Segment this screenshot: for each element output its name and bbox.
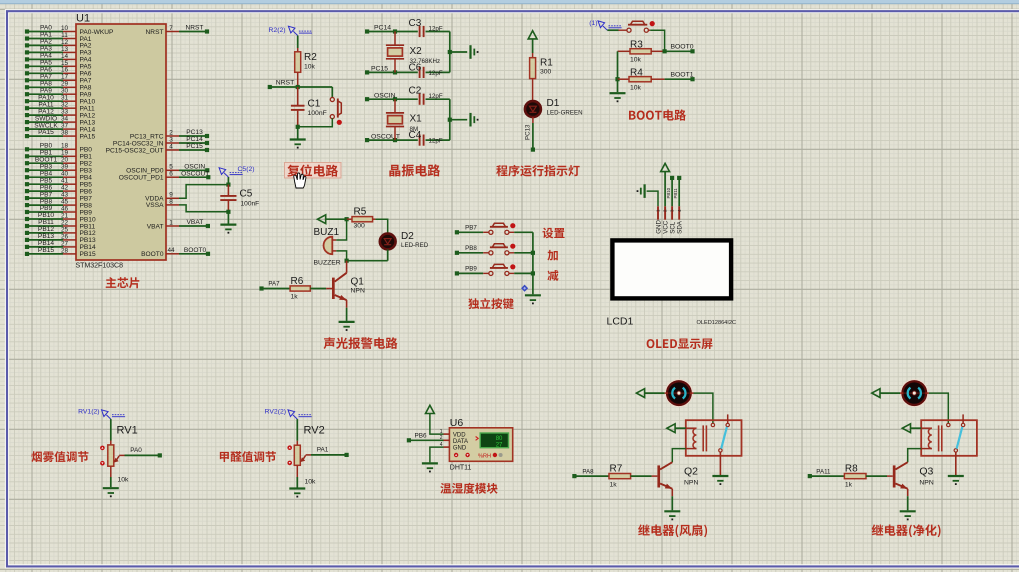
wire RV2 wiper to PA1 (311, 447, 349, 458)
capacitor C3 top (409, 18, 450, 37)
wire net BOOT1 pin 20 (25, 156, 92, 167)
wire net PA7 pin 17 (25, 74, 92, 85)
capacitor C1 (291, 87, 327, 129)
svg-text:1k: 1k (845, 482, 853, 489)
wire net PA15 pin 38 (25, 129, 96, 140)
wire terminal to boot button (607, 29, 618, 31)
svg-text:C3: C3 (409, 18, 422, 29)
svg-text:34: 34 (61, 116, 69, 123)
svg-text:1k: 1k (610, 482, 618, 489)
wire reset button to C1 bottom (298, 118, 333, 127)
svg-text:12: 12 (61, 39, 69, 46)
wire X2 right rail (448, 32, 468, 73)
svg-text:R6: R6 (291, 276, 304, 287)
svg-text:10k: 10k (304, 64, 316, 71)
ground under relay switch (712, 475, 728, 477)
wire SCL stub (666, 176, 674, 207)
svg-text:VBAT: VBAT (147, 223, 164, 230)
svg-text:100nF: 100nF (308, 110, 327, 117)
wire net PC15 (365, 66, 418, 75)
svg-text:OSCIN: OSCIN (374, 92, 396, 99)
svg-text:C5(2): C5(2) (238, 166, 255, 173)
wire SDA stub (673, 176, 681, 207)
wire D1 to PC13 node (525, 117, 536, 152)
wire Q3 emitter to ground (907, 489, 909, 496)
svg-text:NPN: NPN (351, 287, 365, 294)
svg-text:BOOT0: BOOT0 (670, 44, 693, 51)
svg-text:PB6: PB6 (80, 188, 93, 195)
chip pin 8 VSSA (146, 198, 179, 209)
transistor Q2 NPN (657, 462, 698, 489)
wire Q2 emitter to ground (671, 489, 673, 496)
svg-text:8: 8 (169, 198, 173, 205)
svg-text:PA7: PA7 (40, 74, 52, 81)
svg-text:PB12: PB12 (38, 226, 54, 233)
svg-text:PA7: PA7 (268, 281, 280, 288)
diode D2 LED-RED (380, 231, 429, 249)
wire to ground boot (617, 79, 619, 92)
svg-text:46: 46 (61, 205, 69, 212)
terminal flag RV2(2) (265, 409, 312, 420)
svg-text:PB13: PB13 (38, 233, 54, 240)
svg-text:D1: D1 (547, 98, 560, 109)
label 温湿度模块 (440, 483, 497, 494)
wire R4 to BOOT1 (665, 72, 695, 82)
svg-text:Q1: Q1 (351, 277, 365, 288)
wire VDDA to C5 net (179, 185, 228, 199)
svg-text:PA12: PA12 (80, 112, 96, 119)
crystal X2 (386, 32, 440, 73)
svg-text:PA10: PA10 (80, 99, 96, 106)
ground boot circuit (610, 92, 626, 94)
svg-text:DHT11: DHT11 (450, 465, 472, 472)
ground under Q1 (339, 321, 355, 323)
chip pin 7 NRST (146, 25, 210, 36)
svg-text:PA13: PA13 (80, 119, 96, 126)
wire coil to collector (672, 449, 686, 463)
svg-text:PA2: PA2 (40, 39, 52, 46)
wire net PA8 pin 29 (25, 81, 92, 92)
svg-text:33: 33 (61, 109, 69, 116)
wire net OSCOUT (365, 133, 418, 142)
svg-text:U1: U1 (76, 13, 90, 25)
svg-text:PB3: PB3 (80, 168, 93, 175)
power terminal motor (872, 389, 880, 398)
wire R1 to D1 (532, 79, 534, 102)
svg-text:PB9: PB9 (465, 266, 477, 273)
resistor R6 (290, 276, 310, 301)
transistor Q3 NPN (893, 462, 934, 489)
wire net PB12 pin 25 (25, 226, 96, 237)
wire R3 to BOOT0 (663, 44, 695, 54)
svg-text:PA12: PA12 (38, 108, 54, 115)
power terminal above R1 (528, 31, 537, 39)
ground left OLED (643, 184, 645, 198)
wire R2 to NRST node (297, 72, 299, 87)
svg-text:PB10: PB10 (666, 187, 671, 198)
wire C5 to ground (227, 212, 229, 224)
svg-text:R3: R3 (630, 40, 643, 51)
chip pin 44 BOOT0 (141, 247, 210, 258)
power terminal OLED VCC (661, 163, 670, 171)
wire key PB7 to trunk (509, 231, 533, 233)
svg-text:10k: 10k (630, 57, 642, 64)
svg-text:27: 27 (496, 442, 503, 448)
svg-text:PC13_RTC: PC13_RTC (130, 133, 164, 140)
resistor R2 (295, 52, 318, 73)
label 主芯片 (106, 277, 140, 288)
svg-text:3: 3 (169, 136, 173, 143)
wire keys trunk (532, 232, 534, 294)
wire net PB9 (455, 266, 489, 276)
svg-text:DATA: DATA (453, 439, 468, 445)
relay RL fan box (686, 420, 742, 456)
svg-text:PA5: PA5 (40, 60, 52, 67)
svg-text:30: 30 (61, 88, 69, 95)
svg-text:6: 6 (169, 171, 173, 178)
crystal X1 (386, 99, 422, 140)
svg-text:PB10: PB10 (80, 216, 96, 223)
svg-text:OLED12864I2C: OLED12864I2C (697, 320, 737, 326)
wire net PA9 pin 30 (25, 87, 92, 98)
svg-text:R1: R1 (540, 58, 553, 69)
svg-text:PA8: PA8 (582, 468, 594, 475)
svg-text:PA1: PA1 (317, 447, 329, 454)
svg-text:44: 44 (167, 247, 175, 254)
wire net PA3 pin 13 (25, 46, 92, 57)
svg-text:PA7: PA7 (80, 78, 92, 85)
svg-text:17: 17 (61, 74, 69, 81)
push button boot (627, 21, 655, 32)
wire power to R1 (532, 39, 534, 53)
svg-text:PA9: PA9 (80, 92, 92, 99)
svg-text:PA9: PA9 (40, 87, 52, 94)
wire GND pin to ground (430, 447, 444, 462)
wire terminal to R2 (297, 36, 299, 49)
svg-text:PB0: PB0 (40, 143, 53, 150)
svg-text:12pF: 12pF (429, 70, 443, 77)
svg-text:NPN: NPN (684, 480, 698, 487)
wire GND pin to ground (647, 191, 658, 206)
svg-text:LED-GREEN: LED-GREEN (547, 110, 583, 117)
relay RL purifier box (921, 420, 977, 456)
svg-text:16: 16 (61, 67, 69, 74)
wire net PB4 pin 40 (25, 170, 92, 181)
label OLED显示屏 (647, 338, 713, 349)
wire power to R5 node (325, 217, 349, 221)
chip pin 6 OSCOUT_PD1 (119, 170, 211, 181)
svg-text:VCC: VCC (663, 220, 670, 234)
chip pin 3 PC14-OSC32_IN (113, 136, 209, 147)
svg-text:28: 28 (61, 247, 69, 254)
svg-text:42: 42 (61, 185, 69, 192)
resistor R4 (615, 67, 664, 91)
wire net PB8 (455, 245, 489, 255)
relay switch contacts (711, 414, 729, 452)
svg-text:PB15: PB15 (38, 247, 54, 254)
wire motor to relay switch (925, 393, 948, 423)
wire PA7 to R6 (259, 281, 290, 291)
diode D1 LED-GREEN (525, 98, 583, 117)
ground right of X2 (469, 45, 471, 59)
svg-text:PC13: PC13 (186, 129, 203, 136)
wire power to coil (675, 427, 686, 429)
wire net PB13 pin 26 (25, 233, 96, 244)
wire buzzer bottom pin (332, 250, 336, 252)
terminal flag (1) (589, 20, 621, 30)
wire RV2 to ground (296, 465, 298, 477)
svg-text:10k: 10k (305, 479, 317, 486)
svg-text:PB14: PB14 (38, 240, 54, 247)
wire net PA10 pin 31 (25, 94, 96, 105)
svg-text:BOOT1: BOOT1 (670, 72, 693, 79)
svg-text:PA3: PA3 (40, 46, 52, 53)
svg-text:R2(2): R2(2) (269, 27, 286, 34)
wire relay common to ground (955, 452, 957, 475)
svg-text:PB6: PB6 (40, 184, 53, 191)
svg-text:RV1(2): RV1(2) (78, 409, 99, 416)
svg-text:PB2: PB2 (80, 161, 93, 168)
svg-text:C2: C2 (409, 86, 422, 97)
svg-text:13: 13 (61, 46, 69, 53)
svg-text:Q2: Q2 (684, 466, 698, 478)
svg-text:43: 43 (61, 192, 69, 199)
svg-text:31: 31 (61, 95, 69, 102)
svg-text:C5: C5 (240, 189, 253, 200)
wire power to motor (880, 392, 900, 394)
capacitor C5 (220, 177, 259, 214)
svg-text:7: 7 (169, 25, 173, 32)
svg-text:80: 80 (496, 436, 503, 442)
svg-text:VSSA: VSSA (146, 202, 164, 209)
svg-text:PA11: PA11 (816, 468, 831, 475)
svg-text:PB8: PB8 (465, 245, 477, 252)
svg-text:PB6: PB6 (414, 433, 427, 440)
wire net SWCLK pin 37 (25, 122, 96, 133)
LCD1 pin header (656, 206, 684, 234)
wire net PA0 pin 10 (25, 25, 114, 36)
svg-text:PB5: PB5 (40, 177, 53, 184)
transistor Q1 NPN (332, 261, 365, 300)
svg-text:R5: R5 (354, 207, 367, 218)
svg-text:R2: R2 (304, 52, 317, 63)
wire D2 to collector node (345, 249, 388, 262)
chip pin 1 VBAT (147, 219, 210, 230)
label 减 (547, 270, 558, 281)
svg-text:40: 40 (61, 171, 69, 178)
svg-text:R4: R4 (630, 67, 643, 78)
power terminal left arrow alarm (318, 215, 326, 224)
wire C1 to ground (297, 127, 299, 139)
wire net PA8 to R7 (572, 468, 609, 478)
wire net PA5 pin 15 (25, 60, 92, 71)
wire net PB6 pin 42 (25, 184, 92, 195)
ground under Q3 (900, 510, 916, 512)
svg-text:PA15: PA15 (80, 133, 96, 140)
wire NRST rail (268, 85, 333, 89)
svg-text:PC15: PC15 (371, 66, 388, 73)
ground under RV2 (289, 487, 305, 489)
svg-text:PB15: PB15 (80, 251, 96, 258)
svg-text:100nF: 100nF (241, 201, 260, 208)
svg-text:PB11: PB11 (673, 188, 678, 199)
svg-text:37: 37 (61, 123, 69, 130)
label 继电器(净化) (872, 524, 941, 537)
svg-text:PA5: PA5 (80, 64, 92, 71)
label 晶振电路 (389, 164, 440, 176)
terminal flag R2(2) (269, 26, 313, 35)
window top strip (0, 0, 1019, 4)
wire R7 to Q2 base (631, 475, 652, 477)
wire net PB11 pin 22 (25, 219, 96, 230)
svg-text:20: 20 (61, 157, 69, 164)
svg-text:PA6: PA6 (80, 71, 92, 78)
relay switch blade (957, 427, 963, 449)
svg-text:BUZZER: BUZZER (314, 260, 341, 267)
power terminal DHT11 (426, 405, 435, 413)
svg-text:PA15: PA15 (38, 129, 54, 136)
ground under keys (525, 294, 541, 296)
resistor R3 (618, 40, 665, 64)
push button key PB9 (489, 271, 493, 275)
wire net PB7 (455, 225, 489, 235)
svg-text:NPN: NPN (919, 480, 933, 487)
wire VCC pin (664, 172, 666, 207)
wire net PB0 pin 18 (25, 143, 92, 154)
svg-text:PB7: PB7 (465, 225, 477, 232)
svg-text:X1: X1 (410, 114, 423, 125)
svg-text:PA0-WKUP: PA0-WKUP (80, 29, 115, 36)
wire power to VDD (430, 414, 444, 435)
svg-text:1k: 1k (291, 294, 299, 301)
svg-text:PB13: PB13 (80, 237, 96, 244)
capacitor C6 bottom (409, 62, 450, 78)
svg-text:12pF: 12pF (429, 138, 443, 145)
relay switch contacts (947, 414, 965, 452)
svg-text:BUZ1: BUZ1 (314, 227, 340, 238)
svg-text:SCL: SCL (670, 221, 677, 234)
resistor R7 (609, 464, 631, 489)
svg-text:NRST: NRST (186, 25, 204, 32)
svg-text:GND: GND (453, 446, 467, 452)
op-amp U1 main MCU body STM32F103C8 (76, 24, 166, 260)
svg-text:PC14-OSC32_IN: PC14-OSC32_IN (113, 140, 164, 147)
svg-text:Q3: Q3 (919, 466, 933, 478)
wire power to coil (911, 427, 922, 429)
node marker blue diamond (521, 285, 528, 292)
potentiometer RV2 (287, 425, 324, 486)
ground under DHT11 (422, 462, 438, 464)
wire power to motor (645, 392, 665, 394)
svg-text:PA14: PA14 (80, 126, 96, 133)
wire motor to relay switch (690, 393, 713, 423)
svg-text:27: 27 (61, 240, 69, 247)
wire net PB5 pin 41 (25, 177, 92, 188)
label 设置 (543, 228, 565, 239)
svg-text:PA6: PA6 (40, 67, 52, 74)
resistor R1 (530, 58, 554, 79)
svg-text:PB3: PB3 (40, 163, 53, 170)
terminal flag C5(2) (219, 166, 254, 177)
wire NRST to reset button (331, 87, 333, 98)
svg-text:D2: D2 (401, 231, 414, 242)
ground under C5 (220, 225, 236, 234)
chip pin 4 PC15-OSC32_OUT (106, 143, 210, 154)
svg-text:SWDIO: SWDIO (35, 115, 57, 122)
svg-text:PA10: PA10 (38, 94, 54, 101)
wire net PA11 pin 32 (25, 101, 95, 112)
ground under C1 (290, 138, 306, 140)
wire terminal to RV1 (110, 419, 112, 440)
svg-text:PB4: PB4 (80, 175, 93, 182)
ground under RV1 (103, 487, 119, 489)
wire net SWDIO pin 34 (25, 115, 96, 126)
wire net PB9 pin 46 (25, 205, 92, 216)
wire net PB10 pin 21 (25, 212, 96, 223)
svg-text:26: 26 (61, 233, 69, 240)
svg-text:10k: 10k (630, 84, 642, 91)
svg-text:SDA: SDA (677, 220, 684, 234)
svg-text:10k: 10k (118, 477, 130, 484)
relay switch blade (721, 427, 727, 449)
wire key PB8 to trunk (509, 251, 535, 255)
svg-text:1: 1 (440, 429, 443, 435)
wire PB6 to DATA (407, 433, 444, 443)
svg-text:PC14: PC14 (374, 25, 391, 32)
wire net PA4 pin 14 (25, 53, 92, 64)
motor fan purifier (900, 379, 928, 407)
svg-text:PC14: PC14 (186, 136, 203, 143)
wire net PB1 pin 19 (25, 150, 92, 161)
label 声光报警电路 (324, 337, 398, 349)
svg-text:12pF: 12pF (429, 93, 443, 100)
svg-text:RV1: RV1 (117, 425, 138, 437)
wire coil to collector (908, 449, 922, 463)
svg-text:BOOT0: BOOT0 (141, 251, 164, 258)
svg-text:NRST: NRST (146, 29, 164, 36)
chip pin 2 PC13_RTC (130, 129, 209, 140)
svg-text:(1): (1) (589, 20, 597, 27)
wire net PA1 pin 11 (25, 32, 92, 43)
resistor R5 (347, 207, 376, 230)
svg-text:PA3: PA3 (80, 50, 92, 57)
label 烟雾值调节 (31, 451, 88, 462)
svg-text:OSCOUT: OSCOUT (181, 170, 209, 177)
svg-text:STM32F103C8: STM32F103C8 (76, 263, 124, 270)
wire net PB15 pin 28 (25, 247, 96, 258)
push button reset (330, 97, 342, 124)
svg-text:300: 300 (540, 69, 552, 76)
wire RV1 to ground (110, 466, 112, 477)
wire R5 to D2 (375, 219, 387, 233)
wire net PB7 pin 43 (25, 191, 92, 202)
svg-text:39: 39 (61, 164, 69, 171)
wire Q1 emitter to ground (346, 300, 348, 308)
wire net PA12 pin 33 (25, 108, 96, 119)
wire net PC14 (365, 25, 418, 34)
svg-text:PB10: PB10 (38, 212, 54, 219)
buzzer BUZ1 (314, 227, 341, 267)
svg-text:PC15-OSC32_OUT: PC15-OSC32_OUT (106, 147, 164, 154)
svg-text:LED-RED: LED-RED (401, 242, 429, 249)
svg-text:PB14: PB14 (80, 244, 96, 251)
svg-text:PB9: PB9 (80, 209, 93, 216)
label 程序运行指示灯 (496, 165, 579, 177)
power terminal motor (636, 389, 644, 398)
svg-text:14: 14 (61, 53, 69, 60)
mouse hand cursor (294, 173, 306, 188)
display LCD1 OLED panel (612, 240, 731, 298)
